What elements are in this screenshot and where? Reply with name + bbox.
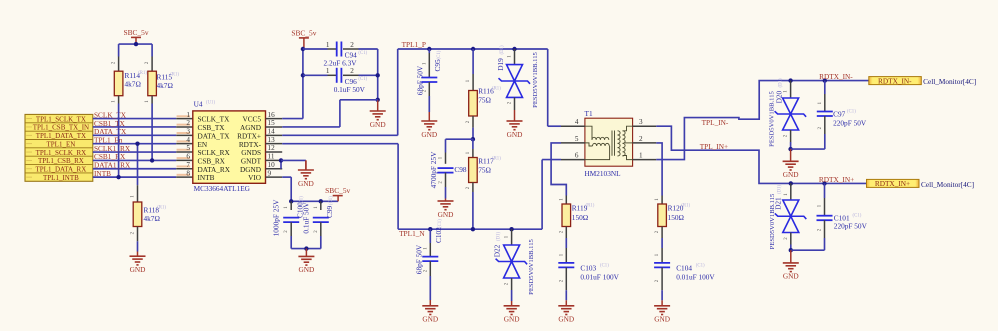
svg-text:TPL_IN-: TPL_IN-: [702, 118, 729, 127]
svg-text:TPL_IN+: TPL_IN+: [700, 142, 728, 151]
svg-text:INTB: INTB: [94, 169, 111, 178]
svg-text:(R1): (R1): [492, 157, 501, 162]
svg-text:1: 1: [326, 67, 330, 75]
svg-text:AGND: AGND: [240, 124, 261, 132]
svg-text:C103: C103: [580, 263, 596, 272]
svg-text:13: 13: [268, 136, 276, 144]
svg-text:GND: GND: [654, 315, 670, 324]
svg-text:(C1): (C1): [358, 77, 367, 82]
svg-text:GND: GND: [783, 170, 799, 179]
svg-text:14: 14: [268, 128, 276, 136]
svg-text:RDTX_IN-: RDTX_IN-: [819, 72, 853, 81]
svg-text:2: 2: [350, 41, 354, 49]
svg-text:C95: C95: [433, 59, 442, 72]
svg-text:5: 5: [186, 144, 190, 152]
svg-text:75Ω: 75Ω: [478, 96, 491, 105]
svg-text:0.01uF 100V: 0.01uF 100V: [580, 272, 619, 281]
svg-text:GND: GND: [783, 272, 799, 281]
svg-text:RDTX_IN+: RDTX_IN+: [875, 179, 910, 188]
svg-text:HM2103NL: HM2103NL: [585, 169, 622, 178]
svg-text:6: 6: [575, 152, 579, 160]
svg-text:DATA_RX: DATA_RX: [198, 166, 231, 174]
svg-text:7: 7: [186, 161, 190, 169]
svg-text:0.1uF 50V: 0.1uF 50V: [301, 202, 310, 234]
svg-text:GND: GND: [438, 210, 454, 219]
svg-text:9: 9: [268, 169, 272, 177]
svg-text:TPL1_CSB_TX_IN: TPL1_CSB_TX_IN: [33, 124, 89, 132]
svg-text:MC33664ATL1EG: MC33664ATL1EG: [194, 184, 251, 193]
svg-text:CSB_TX: CSB_TX: [198, 124, 226, 132]
svg-text:DATA_TX: DATA_TX: [198, 132, 231, 140]
svg-text:4k7Ω: 4k7Ω: [157, 81, 174, 90]
svg-text:TPL1_INTB: TPL1_INTB: [43, 174, 79, 182]
svg-text:4: 4: [186, 136, 190, 144]
svg-text:SCLK_RX: SCLK_RX: [198, 149, 231, 157]
svg-text:(D1): (D1): [497, 232, 502, 241]
svg-text:150Ω: 150Ω: [572, 213, 589, 222]
svg-text:D20: D20: [775, 90, 784, 103]
svg-text:(C1): (C1): [438, 219, 443, 228]
svg-text:GND: GND: [130, 265, 146, 274]
svg-text:(D1): (D1): [500, 45, 505, 54]
svg-text:C99: C99: [325, 205, 334, 218]
svg-text:GND: GND: [370, 120, 386, 129]
svg-text:1: 1: [326, 41, 330, 49]
svg-text:16: 16: [268, 111, 276, 119]
svg-text:VIO: VIO: [248, 174, 261, 182]
svg-text:(D1): (D1): [779, 78, 784, 87]
svg-text:220pF 50V: 220pF 50V: [833, 119, 867, 128]
svg-text:15: 15: [268, 119, 276, 127]
svg-text:TPL1_P: TPL1_P: [402, 40, 426, 49]
svg-text:GND: GND: [507, 130, 523, 139]
svg-text:(C1): (C1): [358, 51, 367, 56]
svg-text:3: 3: [186, 128, 190, 136]
svg-text:10: 10: [268, 161, 276, 169]
svg-text:PESD5V0V1BB.115: PESD5V0V1BB.115: [532, 51, 539, 107]
svg-text:2: 2: [639, 135, 643, 143]
svg-text:GND: GND: [421, 130, 437, 139]
svg-text:SCLK_TX: SCLK_TX: [198, 116, 231, 124]
svg-text:(C1): (C1): [853, 214, 862, 219]
svg-text:(R1): (R1): [681, 204, 690, 209]
svg-text:TPL1_SCLK_RX: TPL1_SCLK_RX: [36, 149, 87, 157]
svg-text:(D1): (D1): [778, 185, 783, 194]
svg-text:GND: GND: [298, 265, 314, 274]
svg-text:GND: GND: [504, 315, 520, 324]
svg-text:5: 5: [575, 135, 579, 143]
svg-text:SBC_5v: SBC_5v: [325, 186, 350, 195]
svg-text:C102: C102: [434, 227, 443, 243]
svg-text:(C1): (C1): [329, 196, 334, 205]
svg-text:1000pF 25V: 1000pF 25V: [272, 199, 281, 236]
svg-text:TPL1_EN: TPL1_EN: [47, 140, 76, 148]
svg-text:RDTX_IN-: RDTX_IN-: [878, 76, 912, 85]
svg-text:(R1): (R1): [586, 204, 595, 209]
svg-text:11: 11: [268, 153, 275, 161]
svg-text:RDTX+: RDTX+: [237, 132, 261, 140]
svg-text:(C1): (C1): [600, 264, 609, 269]
svg-text:C97: C97: [833, 110, 846, 119]
svg-text:GNDT: GNDT: [241, 158, 262, 166]
svg-text:GNDS: GNDS: [241, 149, 261, 157]
svg-text:(R1): (R1): [157, 206, 166, 211]
svg-text:PESD5V0V1BB.115: PESD5V0V1BB.115: [528, 238, 535, 294]
svg-text:EN: EN: [198, 141, 208, 149]
svg-text:68pF 50V: 68pF 50V: [415, 65, 424, 95]
svg-text:150Ω: 150Ω: [668, 213, 685, 222]
svg-text:RDTX_IN+: RDTX_IN+: [819, 175, 854, 184]
svg-text:INTB: INTB: [198, 174, 215, 182]
svg-text:4k7Ω: 4k7Ω: [125, 80, 142, 89]
svg-text:(C1): (C1): [847, 110, 856, 115]
svg-text:TPL1_DATA_TX: TPL1_DATA_TX: [36, 132, 86, 140]
svg-text:220pF 50V: 220pF 50V: [834, 222, 868, 231]
svg-text:6: 6: [186, 153, 190, 161]
svg-text:VCC5: VCC5: [242, 116, 261, 124]
svg-text:GND: GND: [558, 315, 574, 324]
svg-text:4700pF 25V: 4700pF 25V: [429, 151, 438, 188]
svg-text:12: 12: [268, 144, 276, 152]
svg-text:2: 2: [186, 119, 190, 127]
svg-text:TPL1_DATA_RX: TPL1_DATA_RX: [36, 165, 87, 173]
svg-text:0.1uF 50V: 0.1uF 50V: [334, 85, 366, 94]
svg-text:(U1): (U1): [206, 101, 215, 106]
svg-text:SBC_5v: SBC_5v: [123, 28, 148, 37]
svg-text:CSB_RX: CSB_RX: [198, 158, 226, 166]
svg-text:(R1): (R1): [170, 73, 179, 78]
svg-text:3: 3: [639, 118, 643, 126]
svg-text:8: 8: [186, 169, 190, 177]
svg-text:GND: GND: [298, 179, 314, 188]
svg-text:D22: D22: [493, 244, 502, 257]
svg-text:PESD5V0V1BB.115: PESD5V0V1BB.115: [769, 193, 776, 249]
svg-text:D19: D19: [496, 58, 505, 71]
svg-text:T1: T1: [585, 109, 593, 118]
svg-text:C104: C104: [676, 263, 692, 272]
svg-text:(R1): (R1): [138, 71, 147, 76]
svg-text:TPL1_SCLK_TX: TPL1_SCLK_TX: [36, 115, 86, 123]
svg-text:(C1): (C1): [696, 264, 705, 269]
svg-text:0.01uF 100V: 0.01uF 100V: [676, 272, 715, 281]
svg-text:68pF 50V: 68pF 50V: [414, 244, 423, 274]
svg-text:1: 1: [639, 152, 643, 160]
svg-text:Cell_Monitor[4C]: Cell_Monitor[4C]: [921, 180, 974, 189]
svg-text:1: 1: [186, 111, 190, 119]
svg-text:Cell_Monitor[4C]: Cell_Monitor[4C]: [923, 77, 976, 86]
svg-text:GND: GND: [422, 315, 438, 324]
svg-text:(C1): (C1): [437, 50, 442, 59]
svg-text:TPL1_N: TPL1_N: [399, 229, 425, 238]
svg-text:2: 2: [350, 67, 354, 75]
svg-text:U4: U4: [194, 100, 203, 109]
svg-text:C98: C98: [454, 165, 467, 174]
svg-text:SBC_5v: SBC_5v: [291, 29, 316, 38]
svg-text:DGND: DGND: [240, 166, 261, 174]
svg-text:PESD5V0V1BB.115: PESD5V0V1BB.115: [769, 90, 776, 146]
svg-text:4: 4: [575, 118, 579, 126]
svg-text:(R1): (R1): [492, 87, 501, 92]
svg-text:TPL1_CSB_RX: TPL1_CSB_RX: [38, 157, 84, 165]
svg-text:RDTX-: RDTX-: [239, 141, 262, 149]
svg-text:75Ω: 75Ω: [478, 166, 491, 175]
svg-text:4k7Ω: 4k7Ω: [144, 214, 161, 223]
